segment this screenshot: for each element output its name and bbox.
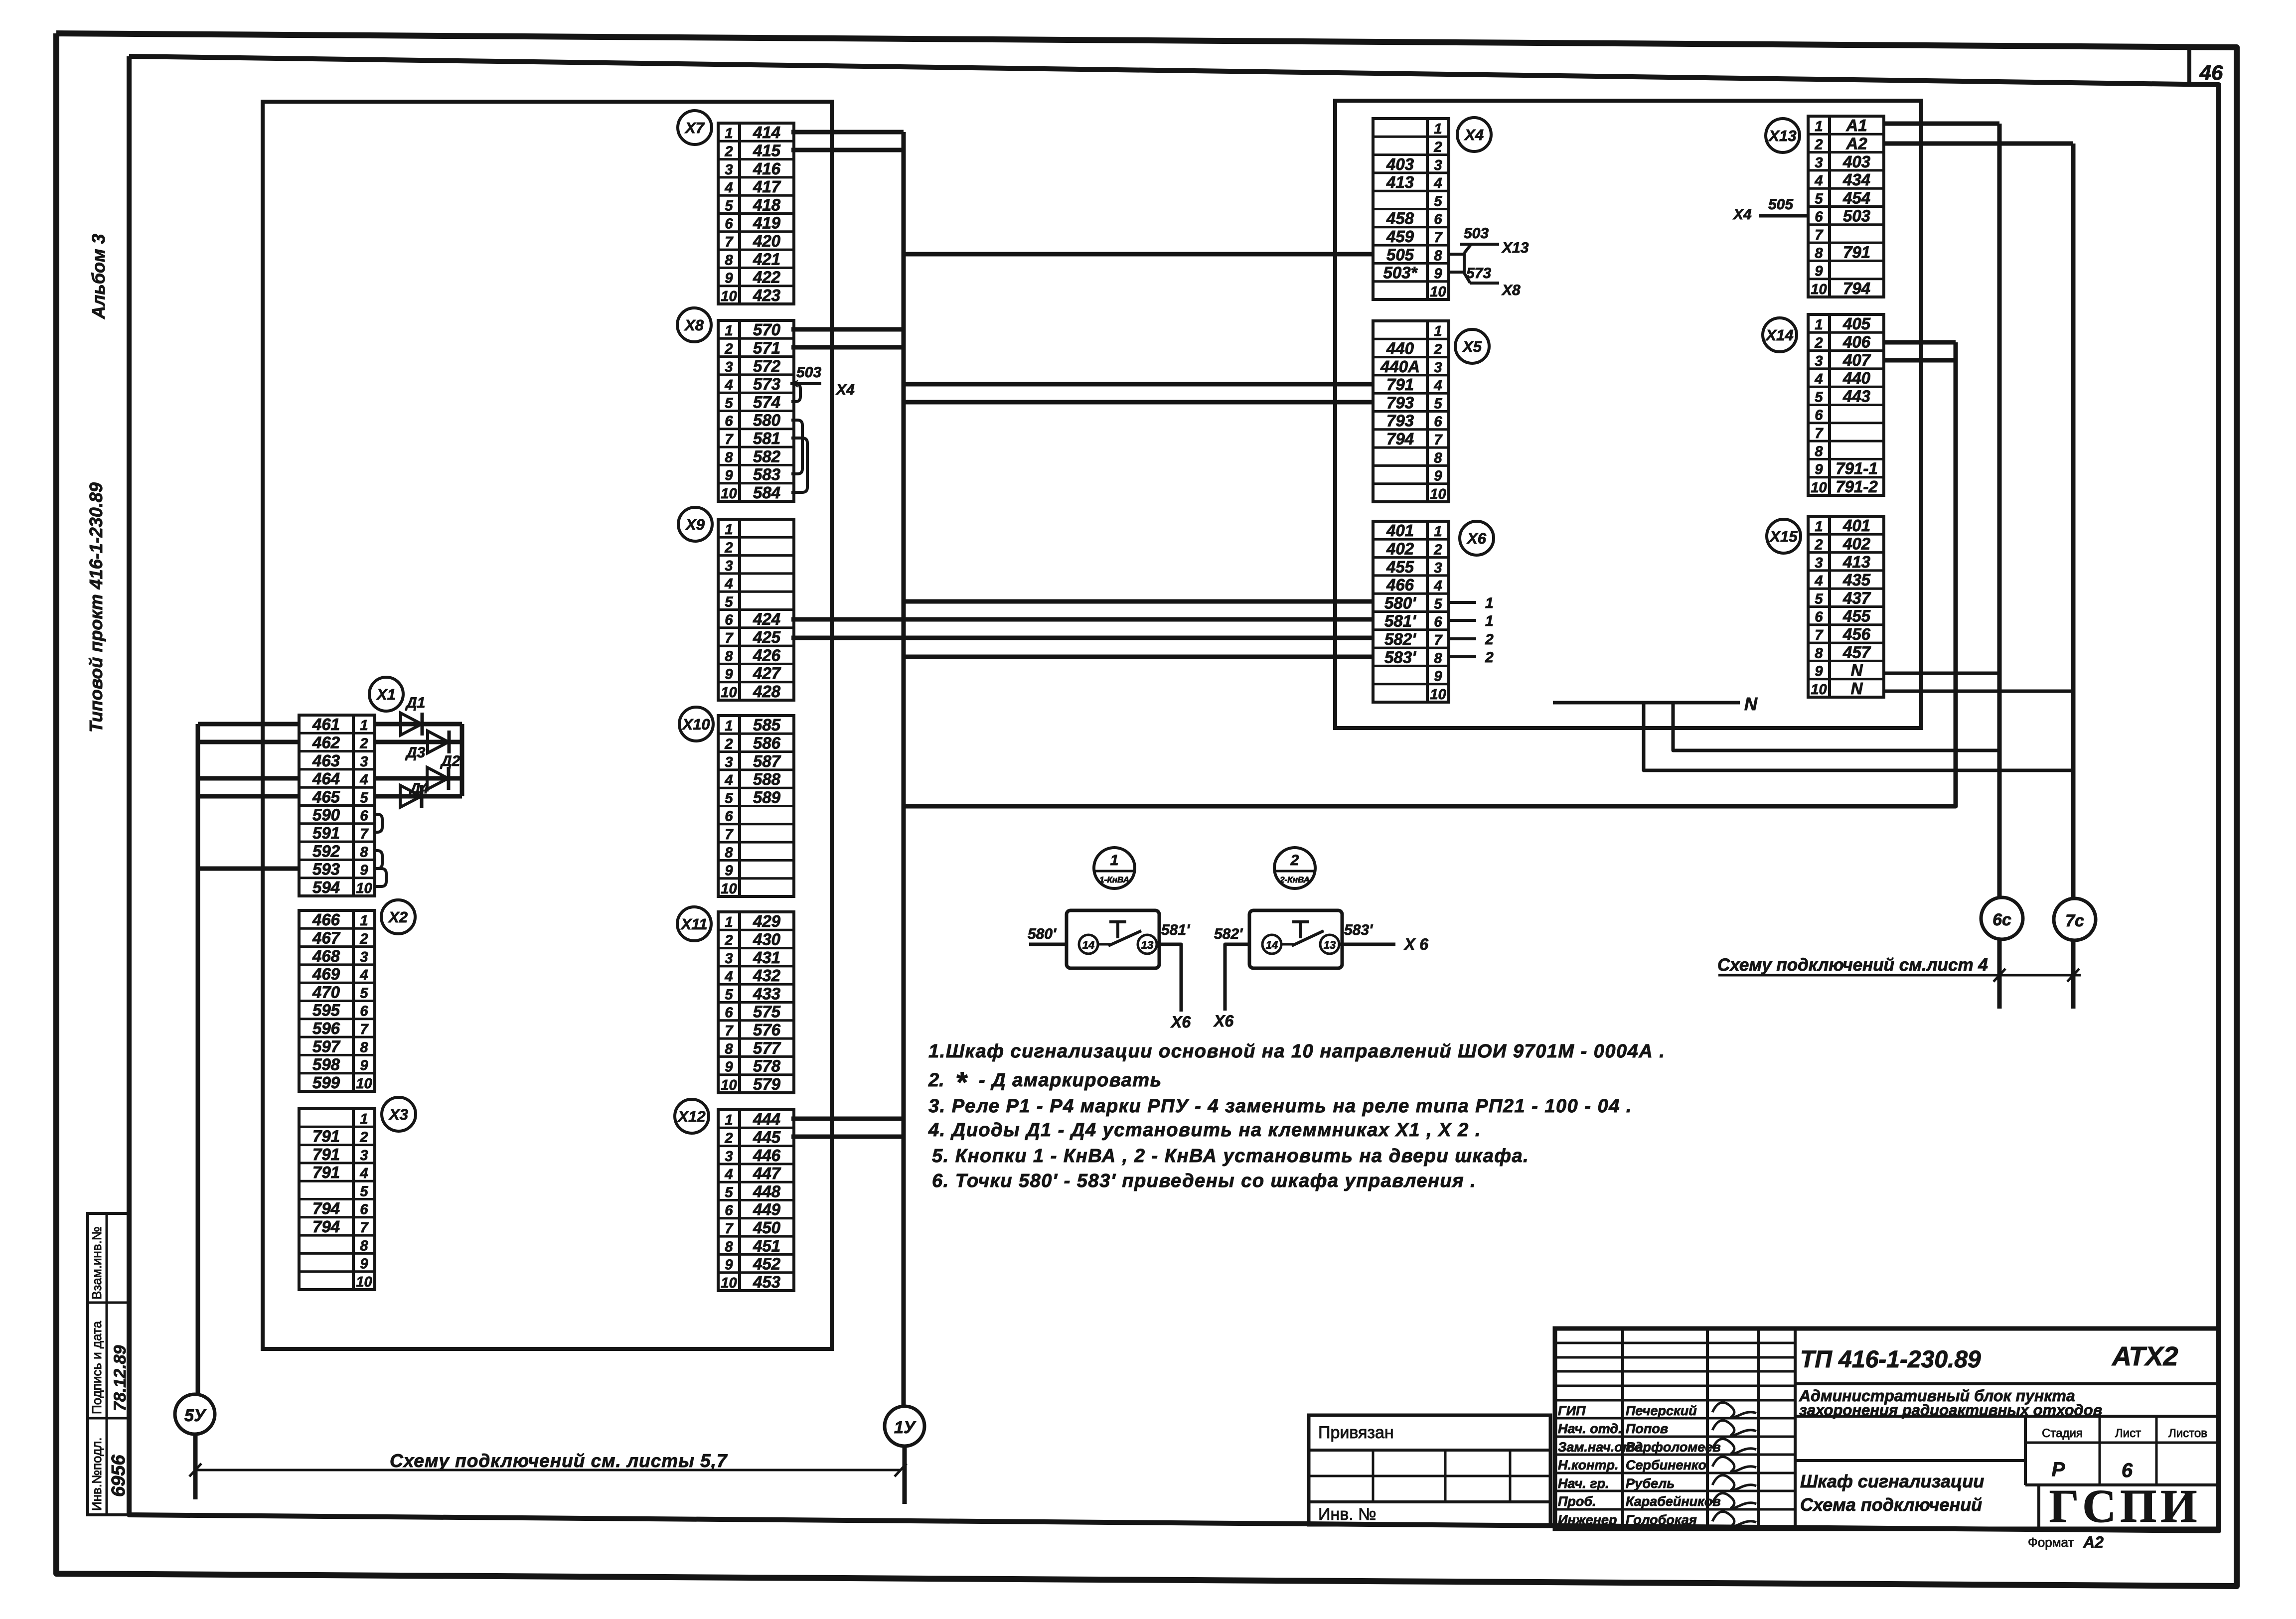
svg-text:2: 2 bbox=[724, 1130, 733, 1146]
svg-text:437: 437 bbox=[1842, 589, 1871, 607]
svg-text:1: 1 bbox=[1434, 121, 1442, 137]
svg-text:794: 794 bbox=[1386, 430, 1414, 448]
svg-text:7: 7 bbox=[1434, 432, 1443, 448]
svg-text:7: 7 bbox=[725, 827, 734, 843]
svg-text:580': 580' bbox=[1384, 593, 1416, 612]
svg-text:6: 6 bbox=[2122, 1460, 2133, 1481]
svg-text:443: 443 bbox=[1842, 387, 1870, 405]
svg-text:1: 1 bbox=[725, 126, 733, 142]
svg-text:467: 467 bbox=[312, 928, 341, 947]
svg-text:9: 9 bbox=[360, 1058, 368, 1074]
svg-text:8: 8 bbox=[360, 1238, 368, 1254]
svg-text:6: 6 bbox=[1815, 209, 1823, 225]
svg-text:5: 5 bbox=[360, 985, 368, 1001]
svg-text:431: 431 bbox=[753, 948, 780, 967]
svg-text:791-1: 791-1 bbox=[1836, 459, 1877, 478]
svg-text:2: 2 bbox=[1433, 139, 1442, 155]
svg-text:7: 7 bbox=[1815, 227, 1824, 243]
svg-text:584: 584 bbox=[753, 483, 780, 502]
svg-text:5: 5 bbox=[1815, 191, 1823, 207]
svg-text:X4: X4 bbox=[1464, 126, 1484, 144]
svg-text:791: 791 bbox=[312, 1145, 340, 1164]
svg-text:462: 462 bbox=[312, 733, 340, 751]
svg-text:ГСПИ: ГСПИ bbox=[2049, 1480, 2201, 1532]
svg-text:448: 448 bbox=[753, 1182, 781, 1200]
svg-text:3: 3 bbox=[725, 754, 733, 770]
svg-text:Печерский: Печерский bbox=[1626, 1403, 1697, 1418]
svg-text:453: 453 bbox=[753, 1273, 780, 1291]
svg-text:599: 599 bbox=[312, 1073, 340, 1092]
svg-text:579: 579 bbox=[753, 1075, 781, 1093]
svg-text:Схему подключений см.лист 4: Схему подключений см.лист 4 bbox=[1717, 955, 1988, 975]
svg-text:794: 794 bbox=[312, 1199, 340, 1218]
svg-text:захоронения радиоактивных от: захоронения радиоактивных отходов bbox=[1799, 1401, 2102, 1419]
svg-text:587: 587 bbox=[753, 752, 781, 770]
svg-text:419: 419 bbox=[753, 214, 781, 232]
svg-text:2: 2 bbox=[1433, 542, 1442, 558]
svg-text:447: 447 bbox=[753, 1164, 781, 1182]
svg-text:13: 13 bbox=[1141, 939, 1153, 951]
svg-text:5: 5 bbox=[1434, 596, 1442, 612]
svg-text:7: 7 bbox=[1434, 632, 1443, 648]
svg-text:4: 4 bbox=[1433, 578, 1442, 594]
svg-text:581': 581' bbox=[1384, 612, 1416, 630]
svg-text:4: 4 bbox=[1433, 175, 1442, 191]
svg-text:9: 9 bbox=[725, 1059, 733, 1075]
svg-text:Подпись и дата: Подпись и дата bbox=[89, 1321, 104, 1414]
svg-text:N: N bbox=[1744, 694, 1758, 714]
svg-text:X8: X8 bbox=[1501, 282, 1521, 298]
svg-text:596: 596 bbox=[312, 1019, 340, 1037]
svg-text:Сербиненко: Сербиненко bbox=[1626, 1458, 1706, 1472]
svg-text:8: 8 bbox=[725, 449, 733, 465]
svg-text:791: 791 bbox=[1386, 375, 1414, 394]
svg-text:2: 2 bbox=[1485, 631, 1494, 648]
svg-text:2: 2 bbox=[724, 932, 733, 948]
svg-text:10: 10 bbox=[1430, 486, 1446, 502]
svg-text:9: 9 bbox=[1815, 462, 1823, 478]
svg-text:791-2: 791-2 bbox=[1836, 477, 1878, 496]
svg-text:455: 455 bbox=[1842, 607, 1871, 625]
svg-text:Д2: Д2 bbox=[440, 753, 460, 769]
svg-text:Нач. отд.: Нач. отд. bbox=[1558, 1421, 1622, 1436]
svg-text:9: 9 bbox=[725, 1257, 733, 1273]
svg-text:463: 463 bbox=[312, 751, 340, 770]
svg-text:8: 8 bbox=[1434, 248, 1442, 264]
svg-text:1: 1 bbox=[1485, 595, 1494, 611]
svg-text:1: 1 bbox=[1815, 519, 1823, 535]
svg-text:8: 8 bbox=[1815, 645, 1823, 661]
svg-text:592: 592 bbox=[312, 842, 340, 860]
svg-text:10: 10 bbox=[1430, 284, 1446, 300]
svg-text:6: 6 bbox=[725, 809, 733, 825]
svg-text:2: 2 bbox=[1814, 137, 1823, 152]
svg-text:Н.контр.: Н.контр. bbox=[1558, 1458, 1619, 1472]
svg-text:- Д амаркировать: - Д амаркировать bbox=[979, 1070, 1162, 1091]
svg-text:582': 582' bbox=[1384, 630, 1416, 648]
svg-text:455: 455 bbox=[1386, 558, 1414, 576]
svg-text:Формат: Формат bbox=[2028, 1535, 2074, 1550]
svg-text:791: 791 bbox=[312, 1163, 340, 1181]
svg-text:440: 440 bbox=[1842, 369, 1871, 387]
svg-text:Схема подключений: Схема подключений bbox=[1800, 1494, 1982, 1515]
svg-text:5: 5 bbox=[360, 1183, 368, 1199]
svg-text:1: 1 bbox=[725, 718, 733, 734]
svg-text:8: 8 bbox=[1434, 450, 1442, 466]
svg-text:1: 1 bbox=[360, 718, 368, 734]
svg-text:X7: X7 bbox=[684, 119, 705, 137]
svg-text:Д3: Д3 bbox=[405, 744, 426, 761]
svg-text:7: 7 bbox=[1815, 426, 1824, 442]
svg-text:465: 465 bbox=[312, 787, 340, 806]
svg-text:4: 4 bbox=[724, 377, 733, 393]
svg-text:6: 6 bbox=[1815, 609, 1823, 625]
svg-text:9: 9 bbox=[360, 1256, 368, 1272]
svg-text:402: 402 bbox=[1386, 539, 1414, 558]
svg-text:Д1: Д1 bbox=[405, 695, 425, 711]
svg-text:4: 4 bbox=[724, 1167, 733, 1182]
svg-text:7: 7 bbox=[725, 1221, 734, 1237]
svg-text:А1: А1 bbox=[1845, 116, 1867, 135]
svg-text:8: 8 bbox=[1434, 650, 1442, 666]
svg-text:5: 5 bbox=[725, 1184, 733, 1200]
svg-text:13: 13 bbox=[1324, 939, 1336, 951]
svg-text:6: 6 bbox=[360, 1202, 368, 1218]
svg-text:4: 4 bbox=[359, 772, 368, 788]
svg-text:458: 458 bbox=[1386, 209, 1414, 228]
svg-text:6: 6 bbox=[725, 1203, 733, 1219]
svg-text:597: 597 bbox=[312, 1037, 341, 1055]
svg-text:7: 7 bbox=[360, 1220, 369, 1236]
svg-text:Лист: Лист bbox=[2115, 1427, 2141, 1440]
svg-text:454: 454 bbox=[1842, 188, 1870, 207]
svg-text:Типовой прокт 416-1-230.89: Типовой прокт 416-1-230.89 bbox=[86, 482, 106, 733]
svg-text:468: 468 bbox=[312, 947, 340, 965]
svg-text:793: 793 bbox=[1386, 412, 1414, 430]
svg-text:6: 6 bbox=[1434, 614, 1442, 630]
svg-text:X6: X6 bbox=[1466, 530, 1487, 547]
svg-text:6: 6 bbox=[725, 216, 733, 232]
svg-text:407: 407 bbox=[1842, 351, 1871, 369]
svg-text:X15: X15 bbox=[1769, 528, 1798, 545]
svg-text:5: 5 bbox=[1434, 193, 1442, 209]
svg-text:444: 444 bbox=[753, 1110, 780, 1128]
svg-text:9: 9 bbox=[1815, 664, 1823, 680]
svg-text:583': 583' bbox=[1344, 922, 1373, 938]
svg-text:X5: X5 bbox=[1462, 338, 1482, 355]
svg-text:1: 1 bbox=[360, 913, 368, 929]
svg-text:Рубель: Рубель bbox=[1626, 1476, 1675, 1491]
svg-text:430: 430 bbox=[753, 930, 781, 948]
svg-text:405: 405 bbox=[1842, 314, 1871, 333]
svg-text:1: 1 bbox=[725, 1112, 733, 1128]
svg-text:Проб.: Проб. bbox=[1558, 1494, 1596, 1509]
svg-text:3: 3 bbox=[725, 162, 733, 178]
svg-text:450: 450 bbox=[753, 1218, 781, 1237]
svg-text:590: 590 bbox=[312, 806, 340, 824]
svg-text:1: 1 bbox=[1815, 119, 1823, 135]
svg-text:ТП 416-1-230.89: ТП 416-1-230.89 bbox=[1800, 1346, 1981, 1373]
svg-text:577: 577 bbox=[753, 1038, 781, 1057]
svg-text:X14: X14 bbox=[1765, 326, 1793, 344]
svg-text:Варфоломеев: Варфоломеев bbox=[1626, 1440, 1721, 1455]
svg-text:3: 3 bbox=[360, 754, 368, 770]
svg-text:10: 10 bbox=[356, 1274, 372, 1290]
svg-text:791: 791 bbox=[312, 1127, 340, 1145]
svg-text:1: 1 bbox=[725, 522, 733, 538]
svg-text:9: 9 bbox=[1434, 669, 1442, 685]
svg-text:Х6: Х6 bbox=[1170, 1013, 1191, 1031]
svg-text:5: 5 bbox=[725, 594, 733, 610]
svg-text:1: 1 bbox=[1815, 317, 1823, 333]
svg-text:3: 3 bbox=[1815, 155, 1823, 171]
svg-text:X10: X10 bbox=[681, 716, 710, 733]
svg-text:440: 440 bbox=[1386, 339, 1414, 357]
svg-text:6с: 6с bbox=[1992, 910, 2011, 929]
svg-text:461: 461 bbox=[312, 715, 340, 734]
svg-text:4. Диоды Д1 - Д4 установи: 4. Диоды Д1 - Д4 установить на клеммника… bbox=[928, 1120, 1481, 1141]
svg-text:7: 7 bbox=[360, 1022, 369, 1037]
svg-text:10: 10 bbox=[1811, 282, 1827, 297]
svg-text:598: 598 bbox=[312, 1055, 340, 1074]
svg-text:433: 433 bbox=[753, 984, 780, 1003]
svg-text:575: 575 bbox=[753, 1003, 781, 1021]
svg-text:10: 10 bbox=[721, 289, 737, 304]
svg-text:8: 8 bbox=[725, 1239, 733, 1255]
svg-text:7: 7 bbox=[1434, 230, 1443, 246]
svg-text:4: 4 bbox=[1433, 378, 1442, 394]
svg-text:417: 417 bbox=[753, 177, 781, 196]
svg-text:2: 2 bbox=[1814, 537, 1823, 553]
svg-text:574: 574 bbox=[753, 393, 780, 411]
svg-text:10: 10 bbox=[721, 486, 737, 502]
svg-text:1: 1 bbox=[1434, 323, 1442, 339]
svg-text:583: 583 bbox=[753, 465, 780, 484]
svg-text:X1: X1 bbox=[376, 686, 396, 703]
svg-text:Инв.№подл.: Инв.№подл. bbox=[89, 1437, 104, 1511]
svg-text:2: 2 bbox=[724, 144, 733, 159]
svg-text:ГИП: ГИП bbox=[1558, 1403, 1586, 1418]
svg-text:*: * bbox=[955, 1066, 968, 1099]
svg-text:Нач. гр.: Нач. гр. bbox=[1558, 1476, 1609, 1491]
svg-text:424: 424 bbox=[753, 610, 780, 628]
svg-text:422: 422 bbox=[753, 268, 781, 287]
svg-text:580': 580' bbox=[1028, 926, 1057, 942]
svg-text:9: 9 bbox=[1434, 468, 1442, 484]
svg-text:7: 7 bbox=[725, 1023, 734, 1039]
svg-text:8: 8 bbox=[1815, 245, 1823, 261]
svg-text:421: 421 bbox=[753, 250, 780, 268]
svg-text:3: 3 bbox=[360, 1148, 368, 1164]
svg-text:591: 591 bbox=[312, 824, 340, 842]
svg-text:418: 418 bbox=[753, 195, 781, 214]
svg-text:7: 7 bbox=[1815, 627, 1824, 643]
svg-text:6. Точки 580′ - 583′ приве: 6. Точки 580′ - 583′ приведены со шкафа … bbox=[932, 1171, 1476, 1191]
svg-text:445: 445 bbox=[753, 1128, 781, 1146]
svg-text:593: 593 bbox=[312, 860, 340, 879]
svg-text:582: 582 bbox=[753, 447, 781, 465]
svg-text:3: 3 bbox=[725, 1149, 733, 1165]
svg-text:Схему подключений см. листы: Схему подключений см. листы 5,7 bbox=[390, 1451, 728, 1471]
svg-text:2: 2 bbox=[1433, 341, 1442, 357]
svg-text:6: 6 bbox=[725, 1005, 733, 1021]
svg-text:Р: Р bbox=[2052, 1459, 2065, 1480]
svg-text:503: 503 bbox=[1464, 225, 1489, 242]
svg-text:8: 8 bbox=[360, 1039, 368, 1055]
svg-text:7: 7 bbox=[725, 432, 734, 447]
svg-text:414: 414 bbox=[753, 123, 780, 142]
svg-text:14: 14 bbox=[1082, 939, 1094, 951]
svg-text:2: 2 bbox=[359, 736, 368, 751]
svg-text:1: 1 bbox=[1434, 524, 1442, 540]
svg-text:7: 7 bbox=[725, 630, 734, 646]
svg-text:Голобокая: Голобокая bbox=[1626, 1512, 1697, 1527]
svg-text:8: 8 bbox=[360, 844, 368, 860]
svg-text:416: 416 bbox=[753, 159, 781, 178]
svg-text:X4: X4 bbox=[1732, 206, 1752, 223]
svg-text:78.12.89: 78.12.89 bbox=[111, 1345, 130, 1411]
svg-text:1-КнВА: 1-КнВА bbox=[1099, 875, 1129, 884]
svg-text:46: 46 bbox=[2199, 61, 2223, 84]
svg-text:А2: А2 bbox=[2083, 1533, 2104, 1551]
svg-text:457: 457 bbox=[1842, 643, 1871, 661]
svg-text:583': 583' bbox=[1384, 648, 1416, 666]
svg-text:Стадия: Стадия bbox=[2042, 1427, 2083, 1440]
svg-text:3: 3 bbox=[1815, 353, 1823, 369]
svg-text:2: 2 bbox=[724, 736, 733, 752]
svg-text:573: 573 bbox=[753, 375, 780, 393]
svg-text:586: 586 bbox=[753, 734, 781, 752]
svg-text:Попов: Попов bbox=[1626, 1421, 1668, 1436]
svg-text:466: 466 bbox=[312, 910, 340, 929]
svg-text:413: 413 bbox=[1842, 553, 1870, 571]
svg-text:456: 456 bbox=[1842, 625, 1871, 643]
svg-text:576: 576 bbox=[753, 1021, 781, 1039]
svg-text:4: 4 bbox=[1814, 173, 1823, 189]
svg-text:N: N bbox=[1851, 661, 1863, 680]
svg-text:794: 794 bbox=[312, 1217, 340, 1236]
svg-text:1: 1 bbox=[360, 1111, 368, 1127]
svg-text:Д4: Д4 bbox=[408, 780, 429, 797]
svg-text:5: 5 bbox=[1434, 396, 1442, 412]
svg-text:3: 3 bbox=[725, 951, 733, 967]
svg-text:578: 578 bbox=[753, 1057, 781, 1075]
svg-text:1: 1 bbox=[1485, 613, 1494, 629]
svg-text:420: 420 bbox=[753, 232, 781, 250]
svg-text:X3: X3 bbox=[388, 1106, 408, 1123]
svg-text:5: 5 bbox=[1815, 591, 1823, 607]
svg-text:503: 503 bbox=[796, 364, 821, 381]
svg-text:4: 4 bbox=[724, 576, 733, 592]
svg-text:N: N bbox=[1851, 679, 1863, 698]
svg-text:451: 451 bbox=[753, 1236, 780, 1255]
svg-text:464: 464 bbox=[312, 769, 340, 788]
svg-text:АТХ2: АТХ2 bbox=[2111, 1341, 2178, 1371]
svg-text:9: 9 bbox=[1434, 266, 1442, 282]
svg-text:5: 5 bbox=[1815, 389, 1823, 405]
svg-text:10: 10 bbox=[356, 1076, 372, 1092]
svg-text:X13: X13 bbox=[1501, 240, 1529, 256]
svg-text:794: 794 bbox=[1843, 279, 1870, 297]
svg-text:1: 1 bbox=[725, 914, 733, 930]
svg-text:413: 413 bbox=[1386, 173, 1414, 191]
svg-text:572: 572 bbox=[753, 357, 781, 375]
svg-text:401: 401 bbox=[1842, 516, 1870, 535]
svg-text:446: 446 bbox=[753, 1146, 781, 1165]
svg-text:2-КнВА: 2-КнВА bbox=[1279, 875, 1310, 884]
svg-text:434: 434 bbox=[1842, 170, 1870, 189]
svg-text:Шкаф сигнализации: Шкаф сигнализации bbox=[1800, 1471, 1984, 1491]
svg-text:470: 470 bbox=[312, 983, 340, 1001]
svg-text:8: 8 bbox=[1815, 443, 1823, 459]
svg-text:403: 403 bbox=[1842, 152, 1870, 171]
svg-text:Альбом 3: Альбом 3 bbox=[88, 234, 109, 319]
svg-text:581': 581' bbox=[1161, 922, 1190, 938]
svg-text:503: 503 bbox=[1843, 207, 1870, 225]
svg-text:5: 5 bbox=[360, 790, 368, 806]
svg-text:8: 8 bbox=[725, 845, 733, 861]
svg-text:6956: 6956 bbox=[108, 1455, 129, 1497]
svg-text:Х4: Х4 bbox=[835, 382, 855, 398]
svg-text:8: 8 bbox=[725, 1041, 733, 1057]
svg-text:435: 435 bbox=[1842, 571, 1871, 589]
svg-text:5: 5 bbox=[725, 987, 733, 1003]
svg-text:589: 589 bbox=[753, 788, 781, 806]
svg-text:426: 426 bbox=[753, 646, 781, 664]
svg-text:8: 8 bbox=[725, 648, 733, 664]
svg-text:466: 466 bbox=[1386, 576, 1414, 594]
svg-text:469: 469 bbox=[312, 965, 340, 983]
svg-text:4: 4 bbox=[724, 969, 733, 985]
svg-text:2: 2 bbox=[1290, 852, 1299, 869]
svg-text:459: 459 bbox=[1386, 227, 1414, 246]
svg-text:415: 415 bbox=[753, 141, 781, 159]
svg-text:428: 428 bbox=[753, 682, 781, 701]
svg-text:9: 9 bbox=[725, 271, 733, 287]
svg-text:582': 582' bbox=[1214, 926, 1243, 942]
svg-text:1: 1 bbox=[1110, 852, 1119, 869]
svg-text:10: 10 bbox=[356, 881, 372, 896]
svg-text:9: 9 bbox=[360, 863, 368, 879]
svg-text:10: 10 bbox=[721, 881, 737, 897]
svg-text:1: 1 bbox=[725, 323, 733, 339]
svg-text:505: 505 bbox=[1768, 196, 1794, 213]
svg-text:571: 571 bbox=[753, 338, 780, 357]
svg-text:402: 402 bbox=[1842, 534, 1871, 553]
svg-text:10: 10 bbox=[721, 685, 737, 701]
svg-text:7: 7 bbox=[360, 826, 369, 842]
svg-text:7с: 7с bbox=[2065, 911, 2084, 930]
svg-text:9: 9 bbox=[725, 863, 733, 879]
svg-text:Привязан: Привязан bbox=[1318, 1423, 1394, 1442]
svg-text:Х6: Х6 bbox=[1213, 1012, 1233, 1030]
svg-text:432: 432 bbox=[753, 966, 781, 985]
svg-text:595: 595 bbox=[312, 1001, 340, 1020]
svg-text:581: 581 bbox=[753, 429, 780, 447]
svg-text:427: 427 bbox=[753, 664, 781, 683]
svg-text:6: 6 bbox=[1434, 414, 1442, 430]
svg-text:10: 10 bbox=[721, 1077, 737, 1093]
svg-text:14: 14 bbox=[1266, 939, 1278, 951]
svg-text:3: 3 bbox=[725, 558, 733, 574]
svg-text:4: 4 bbox=[1814, 573, 1823, 589]
svg-text:2: 2 bbox=[359, 931, 368, 947]
svg-text:9: 9 bbox=[1815, 264, 1823, 280]
svg-text:Инв. №: Инв. № bbox=[1318, 1505, 1377, 1524]
svg-text:3: 3 bbox=[360, 949, 368, 965]
svg-text:3: 3 bbox=[1815, 555, 1823, 571]
svg-text:573: 573 bbox=[1466, 265, 1491, 282]
